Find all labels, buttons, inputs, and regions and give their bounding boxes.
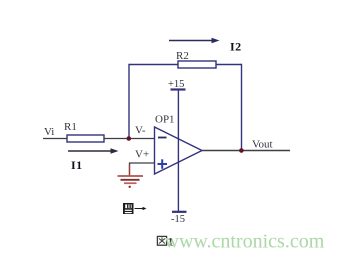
current arrow I2 bbox=[169, 38, 220, 43]
svg-text:-15: -15 bbox=[171, 214, 185, 225]
svg-text:V+: V+ bbox=[135, 149, 149, 161]
wire ground stub (red) bbox=[129, 165, 131, 176]
wire input left bbox=[43, 138, 67, 140]
power +15 rail bar bbox=[171, 88, 186, 90]
current arrow I1 bbox=[68, 148, 119, 153]
svg-text:R1: R1 bbox=[64, 121, 77, 133]
svg-text:Vi: Vi bbox=[44, 126, 54, 138]
svg-text:I1: I1 bbox=[71, 158, 83, 172]
svg-text:+15: +15 bbox=[168, 79, 184, 90]
wire R1 to V- input bbox=[104, 138, 155, 140]
ground bbox=[118, 176, 144, 188]
caption glyph 图 bbox=[157, 236, 166, 245]
node junction V- (red dot) bbox=[127, 136, 132, 141]
op-amp U1 triangle bbox=[155, 127, 203, 174]
svg-text:www.cntronics.com: www.cntronics.com bbox=[165, 231, 325, 253]
wire V+ input to ground bbox=[130, 163, 155, 175]
resistor R1 bbox=[67, 135, 104, 142]
minus sign inverting input bbox=[158, 137, 167, 139]
figure marker icon (embedded object glyph) bbox=[123, 203, 134, 214]
plus sign non-inverting input bbox=[158, 159, 168, 169]
wire positive supply vertical bbox=[177, 90, 179, 212]
wire feedback top-right segment bbox=[216, 64, 242, 66]
svg-text:Vout: Vout bbox=[252, 139, 273, 151]
wire feedback left vertical bbox=[128, 64, 130, 139]
svg-text:R2: R2 bbox=[176, 50, 189, 62]
svg-text:I2: I2 bbox=[230, 40, 242, 54]
resistor R2 bbox=[178, 61, 216, 68]
wire feedback top-left segment bbox=[129, 64, 178, 66]
node output junction (red dot) bbox=[239, 148, 244, 153]
wire output bbox=[202, 150, 290, 152]
power -15 rail bar bbox=[172, 211, 187, 213]
svg-text:V-: V- bbox=[135, 125, 146, 137]
wire feedback right vertical bbox=[241, 64, 243, 151]
figure marker arrow bbox=[135, 207, 147, 210]
svg-text:OP1: OP1 bbox=[155, 114, 175, 126]
